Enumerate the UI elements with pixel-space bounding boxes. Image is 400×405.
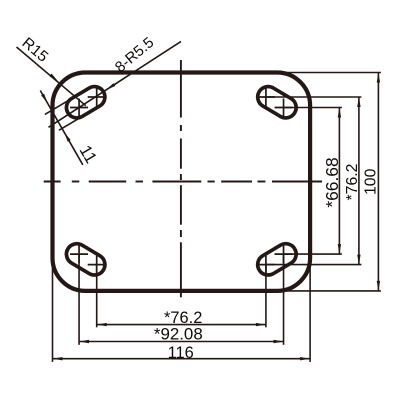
cross TL-A (76.2 pattern hole) (88, 88, 106, 106)
arrow 100 top (377, 73, 380, 83)
cross TR-B (275, 99, 293, 117)
slot bottom-right (254, 240, 300, 279)
extension line 11-dim upper tangent (45, 97, 74, 114)
horizontal centerline (44, 181, 322, 183)
extension line BL-A down (96, 265, 98, 328)
dimension line *92.08 bottom (79, 341, 283, 343)
svg-text:*76.2: *76.2 (344, 164, 361, 201)
arrow R15 (tip on corner arc) (49, 74, 58, 82)
vertical centerline (180, 60, 182, 297)
arrow *92.08 right (274, 340, 284, 343)
arrow 116 left (53, 357, 63, 360)
dimension line 100 right (377, 73, 379, 291)
arrow 11 lower (64, 132, 70, 142)
arrow 100 bottom (377, 281, 380, 291)
arrow 116 right (300, 357, 310, 360)
cross BL-A (88, 256, 106, 274)
arrow *76.2 bottom left (97, 323, 107, 326)
svg-text:116: 116 (168, 344, 194, 362)
svg-text:*92.08: *92.08 (154, 324, 203, 343)
extension line BL-B down (78, 254, 80, 345)
extension line BR-A right (266, 264, 361, 266)
extension line bottom edge right (277, 290, 381, 292)
slot bottom-left (63, 240, 109, 279)
cross BR-A (257, 256, 275, 274)
svg-text:11: 11 (76, 142, 101, 167)
cross BR-B (275, 245, 293, 263)
slot axis / 8-R5.5 leader line (49, 41, 182, 127)
cross TL-B (92.08 pattern hole) (70, 99, 88, 117)
svg-text:*66.68: *66.68 (322, 157, 342, 207)
slot top-left (8-R5.5 obround) (63, 83, 109, 122)
extension line TR-B right (284, 107, 342, 109)
dimension line *66.68 right (338, 108, 340, 255)
leader line R15 (to corner arc centre) (17, 47, 86, 106)
cross BL-B (70, 245, 88, 263)
arrow *76.2 right bottom (357, 255, 360, 265)
arrow 11 upper (41, 94, 47, 104)
dimension line 11 (slot width) (40, 91, 83, 165)
arrow *76.2 right top (357, 97, 360, 107)
arrow *66.68 top (338, 108, 341, 118)
cross TR-A (257, 88, 275, 106)
extension line top edge right (277, 72, 381, 74)
slot top-right (254, 83, 300, 122)
plate outline 116 x 100, R15 corners (53, 73, 311, 291)
dimension line *76.2 bottom (97, 324, 266, 326)
svg-text:8-R5.5: 8-R5.5 (112, 34, 157, 76)
arrow *66.68 bottom (338, 244, 341, 254)
extension line left edge down (52, 258, 54, 362)
extension line BR-A down (265, 265, 267, 328)
dimension line *76.2 right (358, 97, 360, 265)
extension line BR-B right (284, 253, 342, 255)
arrow *92.08 left (79, 340, 89, 343)
arrow *76.2 bottom right (256, 323, 266, 326)
arrow 8-R5.5 (tip at slot end) (106, 83, 115, 90)
extension line right edge down (309, 258, 311, 362)
svg-text:100: 100 (363, 168, 380, 195)
extension line BR-B down (283, 254, 285, 345)
svg-text:R15: R15 (19, 34, 52, 65)
extension line 11-dim lower tangent (59, 115, 85, 130)
extension line TR-A right (266, 96, 361, 98)
dimension line 116 bottom (53, 358, 311, 360)
